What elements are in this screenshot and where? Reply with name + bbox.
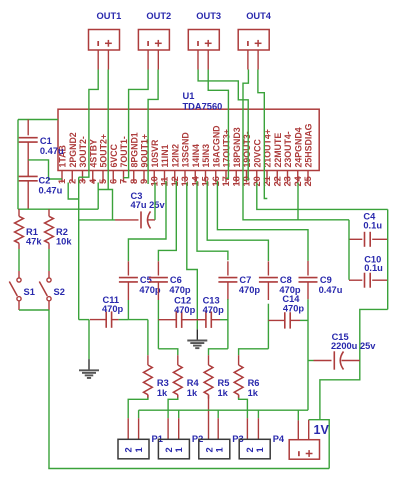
wire OUT4+ to pin21 xyxy=(258,70,267,199)
svg-text:C8: C8 xyxy=(280,275,292,285)
svg-text:13: 13 xyxy=(180,176,190,186)
connector OUT4 xyxy=(238,30,269,51)
capacitor C10 0.1u xyxy=(349,279,362,281)
wire OUT2- to pin7 xyxy=(124,70,149,178)
wire rail to C11 junction xyxy=(79,319,89,321)
svg-text:16: 16 xyxy=(211,176,221,186)
resistor R5 1k xyxy=(208,355,210,365)
wire pin15 to C8 xyxy=(207,181,268,261)
U1 pin 5 stub and number xyxy=(102,171,104,183)
resistor R2 xyxy=(48,209,50,216)
U1 pin 10 stub and number xyxy=(153,171,155,183)
svg-text:470p: 470p xyxy=(102,304,124,314)
svg-text:P4: P4 xyxy=(273,434,285,444)
wire battery minus tap xyxy=(297,410,299,420)
svg-text:0.1u: 0.1u xyxy=(364,263,383,273)
svg-text:2PGND2: 2PGND2 xyxy=(68,132,78,167)
svg-text:470p: 470p xyxy=(283,304,305,314)
OUT3 pin stubs xyxy=(197,51,199,70)
resistor R4 1k xyxy=(177,355,179,365)
svg-text:0.47u: 0.47u xyxy=(40,146,64,156)
svg-text:14: 14 xyxy=(190,175,200,186)
svg-text:17OUT3+: 17OUT3+ xyxy=(222,129,232,167)
wire OUT3+ to pin17 xyxy=(208,70,228,179)
capacitor C11 470p xyxy=(90,319,106,321)
svg-text:14IN4: 14IN4 xyxy=(191,144,201,168)
wire C2 bottom lead xyxy=(27,181,29,210)
U1 pin 25 stub and number xyxy=(307,171,309,183)
svg-text:2: 2 xyxy=(245,447,255,452)
U1 pin 7 stub and number xyxy=(123,171,125,183)
svg-text:U1: U1 xyxy=(183,91,195,101)
wire R2 lower lead xyxy=(48,243,50,249)
svg-text:6VCC: 6VCC xyxy=(109,143,119,167)
svg-text:C5: C5 xyxy=(140,275,152,285)
U1 pin 1 stub and number xyxy=(61,171,63,183)
wire pin14 to C7 xyxy=(197,181,228,260)
wire S1 S2 bottoms xyxy=(18,301,20,310)
svg-text:S2: S2 xyxy=(54,287,65,297)
svg-text:470p: 470p xyxy=(169,285,191,295)
svg-text:1: 1 xyxy=(215,447,225,452)
svg-text:470p: 470p xyxy=(239,285,261,295)
wire C9 column down xyxy=(307,299,309,410)
svg-text:10SVR: 10SVR xyxy=(150,139,160,168)
wire C6 column to C12 and R4 xyxy=(157,300,159,349)
svg-text:1: 1 xyxy=(134,447,144,452)
wire R1 lower lead xyxy=(18,243,20,249)
svg-text:23OUT4-: 23OUT4- xyxy=(283,131,293,167)
svg-text:47u 25v: 47u 25v xyxy=(131,200,166,210)
capacitor C13 470p xyxy=(197,319,206,321)
connector P2 xyxy=(158,439,189,459)
wire C1-C2 link xyxy=(27,142,29,177)
U1 pin 14 stub and number xyxy=(194,171,196,183)
svg-text:C2: C2 xyxy=(39,176,51,186)
svg-text:3OUT2-: 3OUT2- xyxy=(78,136,88,167)
svg-text:C9: C9 xyxy=(320,275,332,285)
U1 pin 3 stub and number xyxy=(82,171,84,183)
svg-text:7OUT1-: 7OUT1- xyxy=(119,136,129,167)
svg-text:22MUTE: 22MUTE xyxy=(273,133,283,168)
svg-text:4STBY: 4STBY xyxy=(88,139,98,167)
capacitor C3 polarized xyxy=(140,211,142,228)
wire pin13 to signal ground xyxy=(187,183,198,330)
svg-text:11IN1: 11IN1 xyxy=(160,144,170,167)
svg-text:0.1u: 0.1u xyxy=(363,221,382,231)
capacitor C4 0.1u xyxy=(349,238,362,240)
svg-text:C13: C13 xyxy=(203,296,220,306)
wire P4 right pin tap xyxy=(257,410,259,418)
wire right rail jog to C15 path xyxy=(320,309,388,419)
U1 pin 9 stub and number xyxy=(143,171,145,183)
svg-text:R1: R1 xyxy=(26,227,38,237)
wire P1 right pin tap xyxy=(138,410,140,418)
U1 pin 21 stub and number xyxy=(266,171,268,183)
wire pin6 branch to C3 xyxy=(98,190,112,220)
svg-text:2: 2 xyxy=(164,447,174,452)
svg-text:20VCC: 20VCC xyxy=(252,138,262,167)
wire rail x78 vertical xyxy=(78,177,80,319)
wire pin2 elbow to rail xyxy=(68,183,79,200)
svg-text:25HSDIAG: 25HSDIAG xyxy=(304,123,314,167)
svg-text:1k: 1k xyxy=(248,388,259,398)
svg-text:18PGND3: 18PGND3 xyxy=(232,127,242,167)
connector P4 xyxy=(239,439,270,459)
svg-text:R6: R6 xyxy=(248,378,260,388)
wire R6 to P4 xyxy=(238,395,240,398)
U1 pin 8 stub and number xyxy=(133,171,135,183)
ground left xyxy=(88,320,90,360)
svg-text:8PGND1: 8PGND1 xyxy=(129,132,139,167)
capacitor C14 470p xyxy=(268,319,284,321)
svg-text:0.47u: 0.47u xyxy=(39,186,63,196)
wire S column to bottom rail xyxy=(48,310,50,469)
svg-text:470p: 470p xyxy=(203,305,225,315)
svg-text:10k: 10k xyxy=(56,237,72,247)
resistor R1 xyxy=(18,209,20,216)
capacitor C15 2200u 25v polarized xyxy=(308,360,314,362)
wire battery plus xyxy=(308,420,310,440)
wire mid rail xyxy=(348,220,350,280)
wire H1 bias rail xyxy=(18,208,98,210)
switch S2 xyxy=(47,278,51,282)
svg-text:15: 15 xyxy=(201,176,211,186)
svg-text:R2: R2 xyxy=(56,227,68,237)
wire C3 right lead to pin10 xyxy=(147,219,155,221)
wire R5 to P3 xyxy=(208,395,210,440)
svg-text:23: 23 xyxy=(283,176,293,186)
svg-text:15IN3: 15IN3 xyxy=(201,144,211,168)
ground middle xyxy=(196,329,198,340)
wire pin4 descent xyxy=(97,183,99,210)
U1 pin 6 stub and number xyxy=(112,171,114,183)
wire C5 column to R3 xyxy=(127,300,129,320)
svg-text:22: 22 xyxy=(272,176,282,186)
svg-text:5OUT2+: 5OUT2+ xyxy=(99,134,109,168)
OUT2 pin stubs xyxy=(147,51,149,70)
svg-text:18: 18 xyxy=(231,176,241,186)
svg-text:1: 1 xyxy=(174,447,184,452)
OUT1 pin stubs xyxy=(97,51,99,70)
wire right rail xyxy=(387,209,389,309)
capacitor C8 470p xyxy=(267,261,269,275)
capacitor C2 xyxy=(19,175,38,177)
U1 pin 23 stub and number xyxy=(287,171,289,183)
wire left rail down to R1 xyxy=(17,120,19,210)
connector 1V battery xyxy=(289,440,319,460)
svg-text:1k: 1k xyxy=(187,388,198,398)
wire OUT1+ to pin5 xyxy=(107,70,109,190)
svg-text:TDA7560: TDA7560 xyxy=(183,102,223,112)
wire ground return rail above P connectors xyxy=(139,409,308,411)
wire pin12 to C6 xyxy=(158,181,176,261)
svg-text:11: 11 xyxy=(160,177,170,187)
U1 pin 12 stub and number xyxy=(174,171,176,183)
svg-text:4: 4 xyxy=(88,178,98,184)
U1 pin 17 stub and number xyxy=(225,171,227,183)
svg-text:470p: 470p xyxy=(174,305,196,315)
svg-text:OUT2: OUT2 xyxy=(146,11,171,21)
svg-text:0.47u: 0.47u xyxy=(319,285,343,295)
svg-text:6: 6 xyxy=(108,179,118,184)
wire pin24 to filter rail xyxy=(297,183,299,220)
svg-text:24PGND4: 24PGND4 xyxy=(293,127,303,167)
wire P2 right pin tap xyxy=(178,410,180,418)
capacitor C6 470p xyxy=(157,261,159,275)
connector OUT1 xyxy=(89,30,120,51)
U1 pin 24 stub and number xyxy=(297,171,299,183)
wire pin20 VCC to right rail xyxy=(257,183,388,210)
svg-text:C6: C6 xyxy=(170,275,182,285)
svg-text:5: 5 xyxy=(98,179,108,184)
svg-text:13SGND: 13SGND xyxy=(181,132,191,167)
wire pin16 to C9 xyxy=(217,181,308,261)
switch S1 xyxy=(17,278,21,282)
svg-text:OUT1: OUT1 xyxy=(97,11,122,21)
wire OUT1- to rail xyxy=(79,70,99,178)
svg-text:8: 8 xyxy=(129,179,139,184)
svg-text:47k: 47k xyxy=(26,237,42,247)
connector OUT2 xyxy=(138,30,169,51)
U1 pin 18 stub and number xyxy=(235,171,237,183)
wire C8 column to C14 and R6 xyxy=(267,304,269,349)
capacitor C5 470p xyxy=(127,261,129,275)
OUT4 pin stubs xyxy=(247,51,249,70)
svg-text:2: 2 xyxy=(67,179,77,184)
svg-text:2: 2 xyxy=(124,447,134,452)
capacitor C1 xyxy=(27,120,29,136)
svg-text:R5: R5 xyxy=(218,378,230,388)
svg-text:OUT4: OUT4 xyxy=(246,11,272,21)
svg-text:R3: R3 xyxy=(157,378,169,388)
resistor R3 1k xyxy=(147,355,149,365)
resistor R6 1k xyxy=(238,355,240,365)
svg-text:16ACGND: 16ACGND xyxy=(211,125,221,167)
op-amp U1 TDA7560 body xyxy=(58,109,319,170)
svg-text:470p: 470p xyxy=(139,285,161,295)
svg-text:1V: 1V xyxy=(314,423,330,437)
U1 pin 2 stub and number xyxy=(71,171,73,183)
capacitor C12 470p xyxy=(158,319,176,321)
U1 pin 15 stub and number xyxy=(205,171,207,183)
svg-text:12: 12 xyxy=(170,176,180,186)
svg-text:1k: 1k xyxy=(157,388,168,398)
svg-text:C7: C7 xyxy=(239,275,251,285)
U1 pin 4 stub and number xyxy=(92,171,94,183)
wire OUT3- to pin19 xyxy=(198,70,248,180)
connector P1 xyxy=(118,439,149,459)
wire OUT2+ to pin9 xyxy=(148,70,158,185)
wire OUT4- down through IC to mid rail xyxy=(243,70,349,220)
wire R4 to P2 xyxy=(177,395,179,398)
svg-text:12IN2: 12IN2 xyxy=(170,144,180,168)
wire top-left horizontal to IC xyxy=(18,119,58,121)
connector OUT3 xyxy=(188,30,219,51)
svg-text:2: 2 xyxy=(204,447,214,452)
svg-text:R4: R4 xyxy=(187,378,200,388)
U1 pin 22 stub and number xyxy=(276,171,278,183)
svg-text:C12: C12 xyxy=(174,296,191,306)
U1 pin 19 stub and number xyxy=(246,171,248,183)
U1 pin 13 stub and number xyxy=(184,171,186,183)
connector P3 xyxy=(199,439,230,459)
svg-text:7: 7 xyxy=(119,179,129,184)
bottom ground rail xyxy=(48,468,329,470)
svg-text:25: 25 xyxy=(303,176,313,186)
svg-text:C14: C14 xyxy=(282,294,300,304)
svg-text:OUT3: OUT3 xyxy=(196,11,221,21)
wire C1C2 junction to pin1 TAB xyxy=(28,160,62,179)
wire rail to C3 left xyxy=(79,219,115,221)
svg-text:1k: 1k xyxy=(218,388,229,398)
wire R3 to P1 xyxy=(147,395,149,398)
wire P3 right pin tap xyxy=(217,410,219,418)
wire pin11 to C5 xyxy=(128,181,166,261)
svg-text:1: 1 xyxy=(255,447,265,452)
U1 pin 16 stub and number xyxy=(215,171,217,183)
U1 pin 11 stub and number xyxy=(164,171,166,183)
U1 pin 20 stub and number xyxy=(256,171,258,183)
capacitor C7 470p xyxy=(227,261,229,275)
svg-text:S1: S1 xyxy=(24,287,35,297)
wire C7 column to R5 xyxy=(227,299,229,349)
capacitor C9 0.47u xyxy=(307,261,309,276)
svg-text:2200u 25v: 2200u 25v xyxy=(331,341,376,351)
svg-text:C1: C1 xyxy=(40,136,52,146)
